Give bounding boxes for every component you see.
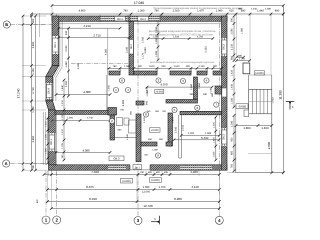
- svg-text:±0.000: ±0.000: [155, 90, 163, 93]
- svg-text:1.000: 1.000: [152, 149, 158, 152]
- svg-text:1.380: 1.380: [241, 27, 244, 34]
- svg-text:4.360: 4.360: [122, 99, 125, 106]
- svg-text:4.500: 4.500: [77, 62, 80, 69]
- svg-text:1.440: 1.440: [257, 10, 264, 13]
- svg-text:1.280: 1.280: [155, 37, 158, 44]
- svg-text:ОК.4: ОК.4: [48, 88, 51, 94]
- svg-text:2.310: 2.310: [182, 124, 185, 131]
- svg-text:2.020: 2.020: [65, 45, 68, 52]
- svg-text:7.040: 7.040: [91, 170, 99, 174]
- svg-text:900: 900: [162, 65, 167, 68]
- svg-text:1.210: 1.210: [231, 43, 234, 50]
- svg-text:1.470: 1.470: [197, 10, 204, 13]
- svg-text:1.905: 1.905: [107, 84, 110, 90]
- svg-text:1.400: 1.400: [261, 126, 269, 130]
- svg-text:1.610: 1.610: [174, 65, 181, 68]
- svg-text:1.610: 1.610: [173, 35, 180, 38]
- svg-text:1.540: 1.540: [126, 133, 129, 139]
- svg-text:ОК.5: ОК.5: [114, 158, 120, 161]
- svg-text:Дв.1: Дв.1: [135, 166, 141, 169]
- svg-text:800: 800: [156, 171, 161, 174]
- svg-text:780: 780: [32, 165, 35, 170]
- svg-text:1.380: 1.380: [45, 147, 48, 153]
- svg-text:620: 620: [229, 10, 234, 13]
- svg-text:1.300: 1.300: [231, 97, 234, 104]
- svg-text:900: 900: [186, 65, 191, 68]
- svg-text:1.190: 1.190: [45, 133, 48, 139]
- svg-text:1.760: 1.760: [142, 36, 145, 43]
- svg-text:4.480: 4.480: [190, 170, 198, 174]
- svg-text:760: 760: [230, 163, 233, 168]
- svg-text:780: 780: [154, 10, 159, 13]
- svg-text:3.180: 3.180: [125, 46, 128, 53]
- svg-text:4.800: 4.800: [79, 10, 86, 13]
- svg-text:±0.000: ±0.000: [151, 129, 159, 132]
- svg-text:1.795: 1.795: [61, 142, 64, 148]
- svg-text:1.150: 1.150: [61, 113, 64, 119]
- svg-text:1.800: 1.800: [243, 126, 251, 130]
- svg-text:1.400: 1.400: [231, 83, 234, 90]
- svg-text:4.250: 4.250: [197, 35, 204, 38]
- svg-text:1.190: 1.190: [32, 68, 35, 75]
- svg-text:Вентилируемая воздушная просло: Вентилируемая воздушная прослойка 40 мм,…: [149, 30, 216, 33]
- svg-text:1.400: 1.400: [146, 86, 149, 93]
- svg-text:2.550: 2.550: [65, 80, 68, 87]
- svg-text:12.720: 12.720: [143, 204, 153, 208]
- svg-text:1.420: 1.420: [231, 69, 234, 76]
- svg-text:460: 460: [32, 18, 35, 23]
- svg-text:2.350: 2.350: [204, 46, 207, 53]
- svg-text:8.910: 8.910: [89, 197, 97, 201]
- svg-text:1.120: 1.120: [143, 116, 146, 122]
- svg-text:1.080: 1.080: [124, 65, 131, 68]
- svg-text:780: 780: [123, 10, 128, 13]
- svg-text:1.400: 1.400: [213, 136, 216, 142]
- svg-text:900: 900: [213, 65, 218, 68]
- svg-text:1.210: 1.210: [61, 128, 64, 134]
- svg-text:1.440: 1.440: [65, 61, 68, 68]
- svg-text:920: 920: [230, 137, 233, 142]
- svg-text:ОК.3: ОК.3: [223, 134, 226, 140]
- svg-text:1.240: 1.240: [230, 120, 233, 127]
- svg-text:1.170: 1.170: [142, 52, 145, 59]
- svg-text:17.040: 17.040: [134, 1, 144, 5]
- svg-text:880: 880: [275, 10, 280, 13]
- svg-text:(2.800): (2.800): [151, 179, 159, 182]
- svg-text:2.720: 2.720: [32, 87, 35, 94]
- svg-text:А: А: [5, 161, 8, 166]
- svg-text:1.090: 1.090: [143, 186, 150, 189]
- svg-text:4.360: 4.360: [105, 48, 108, 55]
- svg-text:8.075: 8.075: [86, 185, 94, 189]
- svg-text:1.080: 1.080: [216, 10, 223, 13]
- svg-text:ОК.2: ОК.2: [130, 43, 133, 49]
- svg-text:980: 980: [230, 150, 233, 155]
- svg-text:ОК.1: ОК.1: [50, 139, 53, 145]
- svg-text:1.210: 1.210: [61, 99, 64, 105]
- svg-text:1.610: 1.610: [149, 65, 156, 68]
- svg-text:940: 940: [65, 30, 68, 35]
- svg-text:1.460: 1.460: [190, 83, 193, 90]
- svg-text:1.440: 1.440: [61, 84, 64, 90]
- svg-text:4.380: 4.380: [83, 148, 90, 152]
- svg-text:1.880: 1.880: [198, 82, 201, 89]
- svg-text:4.850: 4.850: [32, 135, 35, 142]
- svg-text:ОК.1: ОК.1: [54, 42, 57, 48]
- svg-text:590: 590: [231, 17, 234, 22]
- svg-text:1.295: 1.295: [67, 117, 73, 120]
- svg-text:1.380: 1.380: [265, 8, 271, 11]
- svg-text:2.910: 2.910: [175, 126, 178, 133]
- svg-text:900: 900: [138, 65, 143, 68]
- svg-text:11.380: 11.380: [279, 90, 283, 100]
- svg-text:4.380: 4.380: [84, 90, 91, 94]
- svg-text:1.905: 1.905: [213, 121, 216, 127]
- svg-text:ОК.2: ОК.2: [117, 18, 123, 21]
- svg-text:4.210: 4.210: [83, 24, 91, 28]
- svg-text:ОК.3: ОК.3: [223, 44, 226, 50]
- svg-text:12.060: 12.060: [142, 191, 150, 194]
- svg-text:1.700: 1.700: [159, 186, 166, 189]
- svg-text:780: 780: [113, 65, 118, 68]
- svg-text:2.140: 2.140: [210, 87, 213, 93]
- svg-text:(2.800): (2.800): [122, 180, 130, 183]
- svg-text:-0.650: -0.650: [238, 105, 246, 109]
- svg-text:1.380: 1.380: [138, 10, 145, 13]
- svg-text:1.480: 1.480: [155, 26, 158, 33]
- svg-text:1.473: 1.473: [172, 116, 175, 122]
- svg-text:2.130: 2.130: [199, 65, 206, 68]
- svg-text:4.070: 4.070: [161, 82, 168, 86]
- svg-text:1.740: 1.740: [87, 117, 93, 120]
- svg-text:4.600: 4.600: [32, 41, 35, 48]
- svg-text:2.800: 2.800: [267, 141, 271, 149]
- svg-text:1.590: 1.590: [231, 28, 234, 35]
- svg-text:800: 800: [148, 171, 153, 174]
- svg-text:ОК.3: ОК.3: [140, 18, 146, 21]
- svg-text:835: 835: [164, 171, 169, 174]
- svg-text:1.290: 1.290: [155, 50, 158, 57]
- svg-text:940: 940: [146, 100, 149, 105]
- svg-text:5.400: 5.400: [201, 136, 209, 140]
- svg-text:2.020: 2.020: [173, 10, 180, 13]
- svg-text:1.150: 1.150: [32, 106, 35, 113]
- svg-text:760: 760: [140, 171, 145, 174]
- svg-text:2.880: 2.880: [144, 47, 147, 54]
- svg-text:Б: Б: [5, 22, 8, 27]
- svg-text:1.420: 1.420: [271, 97, 274, 104]
- svg-text:17.240: 17.240: [17, 88, 21, 98]
- svg-text:1.440: 1.440: [251, 8, 257, 11]
- svg-text:880: 880: [231, 55, 234, 60]
- svg-text:1.905: 1.905: [213, 151, 216, 157]
- svg-text:2.710: 2.710: [93, 33, 101, 37]
- svg-text:Безосновный линолеум на теплои: Безосновный линолеум на теплоизолирующей…: [150, 61, 215, 64]
- svg-text:1.485: 1.485: [205, 132, 212, 135]
- svg-text:4.110: 4.110: [191, 185, 199, 189]
- svg-text:(4.900): (4.900): [255, 72, 263, 75]
- svg-text:8.280: 8.280: [174, 197, 182, 201]
- svg-text:1.210: 1.210: [45, 120, 48, 126]
- svg-text:1.400: 1.400: [188, 132, 195, 135]
